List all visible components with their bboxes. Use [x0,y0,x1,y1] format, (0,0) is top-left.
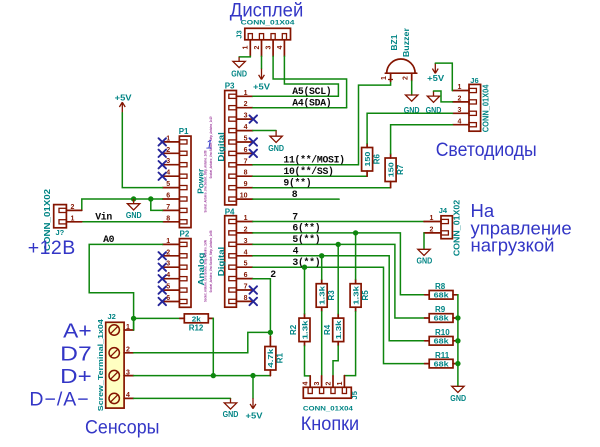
wire D+ J2 pin3 row [134,375,271,377]
J6 reference [470,76,478,85]
label D+ [60,365,91,388]
svg-text:Сенсоры: Сенсоры [85,417,160,439]
power +5V (left, arrow up) [115,92,132,112]
label +12В [28,237,76,259]
wire A0 net P2 pin1 to J2/R12 [89,244,162,330]
svg-text:A+: A+ [63,320,91,343]
svg-text:2: 2 [126,347,130,354]
J2 pin stubs [124,330,134,398]
ground GND (R8-R11 rail) [450,386,466,403]
no-connect P1 pin1 [159,138,167,145]
svg-text:68k: 68k [434,291,450,300]
P1 pin numbers 1-8 [166,135,170,222]
svg-text:Socket_Arduino_Uno:Socket_Stri: Socket_Arduino_Uno:Socket_Strip_Arduino_… [203,240,207,302]
P1 name Power [195,168,205,194]
label Кнопки [301,413,360,435]
svg-text:+12В: +12В [28,237,76,259]
connector P4 CONN_01X08 (Digital) [225,216,237,308]
connector P2 CONN_01X06 (Analog) [179,239,191,308]
wire J3 pin4 to A5(SCL) [284,56,338,96]
wire 10(**/SS) net to R6 [253,175,367,177]
wire 9(**) net to R7 [253,187,391,189]
svg-text:D+: D+ [60,365,91,388]
label A+ [63,320,91,343]
net label A4(SDA) [292,98,331,109]
J2 reference [108,312,116,321]
resistor R3 1.3k [316,279,336,311]
J6 pin stubs [453,91,470,125]
J4 reference [439,206,448,215]
ground GND (P1) [126,199,142,220]
svg-text:R6: R6 [372,154,381,165]
connector J5 CONN_01X04 (buttons) [303,387,351,398]
wire R7 top to J6 pin4 [391,125,453,154]
connector J2 Screw_Terminal_1x04 (sensors) [106,322,124,408]
P2 footprint field [203,240,207,302]
J4 value CONN_01X02 [453,199,462,256]
svg-text:R3: R3 [327,290,336,301]
P3 pin stubs [236,96,252,199]
junction rail at R11 [455,361,460,366]
svg-text:150: 150 [386,162,395,177]
resistor R5 1.3k [350,279,370,311]
wire GND rail to P1 pin7 [151,199,163,210]
label На управление нагрузкой [471,200,572,256]
junction D+ at R12 branch [211,373,216,378]
wire D7 J2 pin2 to R1 top [134,332,271,352]
connector J4 CONN_01X02 (load) [441,216,452,239]
ground GND (J4) [417,249,433,265]
BZ1 value Buzzer [402,28,411,57]
connector J3 CONN_01X04 (display) [245,28,291,40]
J? pin stubs [66,210,81,221]
svg-text:1: 1 [337,381,344,385]
P1 reference [179,127,189,136]
wire net 5(**) to R9 [253,244,425,318]
P4 footprint field [209,231,213,293]
buzzer BZ1 [385,59,417,82]
power +5V (J3 pin2, arrow down) [253,69,270,92]
svg-text:68k: 68k [434,359,450,368]
J5 pin stubs [310,376,344,388]
P1 footprint field [203,151,207,213]
svg-text:R12: R12 [189,324,204,333]
net label 11(**/MOSI) [283,155,344,166]
svg-text:Светодиоды: Светодиоды [436,139,537,161]
svg-text:J4: J4 [439,206,448,215]
J? pin numbers [71,204,75,222]
wire net 4 to R10 [253,256,425,341]
no-connect P1 pin3 [159,161,167,168]
connector J? CONN_01X02 (+12V input) [54,205,67,228]
svg-text:2: 2 [71,204,75,211]
svg-text:8: 8 [244,170,248,177]
svg-text:A0: A0 [103,234,115,245]
svg-text:1: 1 [430,215,434,222]
wire D-/A- J2 pin4 to GND [134,397,231,399]
wire +5V to J6 pin1 [435,63,452,90]
J6 value CONN_01X04 [481,84,490,132]
no-connect P3 pin3 [250,115,258,122]
J3 pin stubs [250,40,284,57]
svg-text:4: 4 [303,381,310,385]
svg-text:Digital: Digital [216,132,226,162]
no-connect P4 pin8 [250,298,258,306]
svg-text:1.3k: 1.3k [318,285,327,305]
svg-text:R11: R11 [435,351,450,360]
P4 pin numbers 1-8 [244,215,248,302]
no-connect P4 pin7 [250,286,258,294]
svg-text:4: 4 [244,249,248,256]
svg-text:Socket_Arduino_Uno:Socket_Stri: Socket_Arduino_Uno:Socket_Strip_Arduino_… [203,151,207,213]
net label 9(**) [283,178,311,189]
svg-text:Дисплей: Дисплей [230,0,303,21]
svg-text:5: 5 [244,136,248,143]
svg-text:R4: R4 [323,324,332,335]
svg-text:4: 4 [293,246,299,257]
no-connect P2 pin5 [159,286,167,293]
junction 6(**) at R5 [353,230,358,235]
BZ1 reference [390,34,399,51]
J2 pin numbers 1-4 [126,324,130,399]
svg-text:Socket_Arduino_Uno:Socket_Stri: Socket_Arduino_Uno:Socket_Strip_Arduino_… [209,231,213,293]
junction 4 at R3 [319,253,324,258]
svg-text:5: 5 [244,261,248,268]
junction GND rail at x=150.8 [148,196,153,201]
svg-text:3: 3 [266,45,273,49]
svg-text:2k: 2k [192,314,202,323]
wire net 2 to R1 [253,279,271,337]
svg-text:Screw_Terminal_1x04: Screw_Terminal_1x04 [96,319,105,411]
junction rail at R10 [455,338,460,343]
P2 pin numbers 1-6 [166,238,170,302]
svg-text:3: 3 [166,261,170,268]
svg-text:6: 6 [166,193,170,200]
svg-text:P4: P4 [225,208,235,217]
junction 3(**) at R2 [302,265,307,270]
svg-text:R7: R7 [396,164,405,175]
wire R3 bottom to J5 pin3 [321,312,323,376]
svg-text:8: 8 [166,215,170,222]
svg-text:2: 2 [244,101,248,108]
connector P1 CONN_01X08 (Power) [179,136,191,228]
svg-text:2: 2 [254,45,261,49]
J4 pin numbers [430,215,434,233]
svg-text:J6: J6 [470,76,478,85]
wire net 7 to J4 pin1 [253,221,424,223]
svg-text:10(**/SS): 10(**/SS) [283,166,333,177]
svg-text:2: 2 [166,249,170,256]
junction 5(**) at R4 [336,242,341,247]
blue unit mark 1 [206,140,212,152]
wire junction to R12 [134,317,180,319]
svg-text:A4(SDA): A4(SDA) [292,98,331,109]
wire A4(SDA) net [253,107,347,109]
svg-text:R1: R1 [276,353,285,364]
svg-text:2: 2 [402,76,409,80]
net label A0 [103,234,115,245]
wire BZ1 pin2 to GND [411,81,413,95]
svg-text:+5V: +5V [427,73,444,83]
J6 pin numbers 1-4 [458,84,462,125]
wire J4 pin2 to GND [423,233,425,249]
wire GND rail to P1 pin6 [82,199,163,210]
wire J3 pin2 to +5V [261,56,263,69]
net label 8 [292,189,298,200]
svg-text:D−/A−: D−/A− [29,389,89,411]
svg-text:Кнопки: Кнопки [301,413,360,435]
svg-text:P3: P3 [225,82,235,91]
svg-text:1: 1 [244,90,248,97]
ground GND (P3 pin4) [268,131,284,154]
J3 reference J3 [235,30,244,38]
svg-text:D7: D7 [60,342,92,365]
J3 pin numbers 1-4 [243,45,284,49]
wire 11(**/MOSI) net to buzzer [253,81,391,165]
svg-text:5: 5 [166,284,170,291]
net label 5(**) [292,234,320,245]
svg-text:3: 3 [244,113,248,120]
wire R3 top feed [321,256,323,279]
no-connect P2 pin2 [159,252,167,259]
svg-text:GND: GND [223,410,239,419]
svg-text:68k: 68k [434,337,450,346]
svg-text:6: 6 [244,147,248,154]
resistor R11 68k [425,351,458,369]
label Дисплей [230,0,303,21]
connector J6 CONN_01X04 (LEDs) [469,84,481,131]
svg-text:J5: J5 [350,391,359,399]
ground GND (J3 pin1) [231,57,247,79]
wire R5 top feed [355,233,357,279]
svg-text:68k: 68k [434,314,450,323]
label D7 [60,342,92,365]
no-connect P3 pin6 [250,150,258,158]
svg-text:R2: R2 [289,324,298,335]
P1 pin stubs [163,142,180,222]
wire R2 top feed [304,267,306,314]
svg-text:3: 3 [166,158,170,165]
svg-text:GND: GND [231,70,247,79]
wire J3 pin3 to A4(SDA) [273,56,347,107]
svg-text:R8: R8 [435,282,446,291]
wire R12 to D+ row [212,318,214,375]
svg-text:1: 1 [126,324,130,331]
svg-text:2: 2 [325,381,332,385]
resistor R4 1.3k [323,314,344,346]
junction D+ at +5V branch [250,373,255,378]
svg-text:4: 4 [126,392,130,399]
J2 value Screw_Terminal_1x04 [96,319,105,411]
BZ1 pin numbers [381,76,409,80]
net label Vin [95,212,112,223]
svg-text:3: 3 [314,381,321,385]
no-connect P3 pin5 [250,138,258,146]
J5 reference [350,391,359,399]
svg-text:5(**): 5(**) [292,234,320,245]
svg-text:4: 4 [166,170,170,177]
wire net 3(**) to R11 [253,267,425,363]
junction A0/R12/J2 pin1 [131,316,136,321]
wire GND to J6 pin2 [434,91,453,102]
net label 3(**) [292,257,320,268]
junction GND rail at x=133.6 [131,196,136,201]
resistor R9 68k [425,305,458,323]
svg-text:6: 6 [166,295,170,302]
connector P3 CONN_01X10 (Digital) [225,91,237,205]
J3 value CONN_01X04 [241,20,295,27]
svg-text:1: 1 [166,135,170,142]
svg-text:1.3k: 1.3k [334,319,343,339]
P4 name Digital [216,247,226,277]
svg-text:10: 10 [240,193,248,200]
ground GND (BZ1) [404,95,420,115]
svg-text:7: 7 [166,204,170,211]
P3 name Digital [216,132,226,162]
svg-text:7: 7 [292,211,298,222]
svg-text:2: 2 [166,147,170,154]
resistor R12 2k [180,314,213,333]
svg-text:+5V: +5V [246,411,263,421]
wire R5 bottom to J5 pin1 [344,312,355,376]
svg-text:4: 4 [458,118,462,125]
net label 2 [270,269,276,280]
svg-text:R9: R9 [435,305,446,314]
svg-text:GND: GND [268,144,284,153]
resistor R1 4.7k [265,337,285,376]
net label 6(**) [292,223,320,234]
wire J3 pin1 to GND [239,55,250,58]
svg-text:P1: P1 [179,127,189,136]
svg-text:1: 1 [244,215,248,222]
J? value CONN_01X02 [43,188,52,251]
svg-text:3: 3 [458,107,462,114]
net label 7 [292,211,298,222]
junction D7/R1 feed [268,330,273,335]
resistor R6 150 [362,144,382,177]
svg-text:P2: P2 [180,230,190,239]
svg-text:+5V: +5V [253,81,270,91]
svg-text:J?: J? [56,228,65,237]
svg-text:1.3k: 1.3k [351,285,360,305]
svg-text:GND: GND [450,394,466,403]
net label 4 [293,246,299,257]
no-connect P2 pin4 [159,275,167,282]
svg-text:A5(SCL): A5(SCL) [292,86,331,97]
svg-text:2: 2 [430,226,434,233]
svg-text:Vin: Vin [95,212,112,223]
svg-text:6: 6 [244,272,248,279]
svg-text:BZ1: BZ1 [390,34,399,51]
wire A5(SCL) net [253,95,339,97]
svg-text:4: 4 [166,272,170,279]
svg-text:9: 9 [244,181,248,188]
svg-text:6(**): 6(**) [292,223,320,234]
svg-text:9(**): 9(**) [283,178,311,189]
svg-text:1: 1 [166,238,170,245]
no-connect P2 pin3 [159,264,167,271]
label Светодиоды [436,139,537,161]
wire R2 bottom to J5 pin4 [305,346,311,376]
P2 pin stubs [163,244,180,301]
svg-text:1: 1 [381,76,388,80]
svg-text:CONN_01X02: CONN_01X02 [453,199,462,256]
wire net 8 [253,198,339,200]
wire GND rail right [457,295,459,387]
net label 10(**/SS) [283,166,333,177]
no-connect P1 pin2 [159,150,167,157]
svg-text:1: 1 [71,215,75,222]
label Сенсоры [85,417,160,439]
power +5V (bottom, arrow down) [246,376,263,421]
wire R6 top to J6 pin3 [367,113,452,143]
svg-text:4: 4 [244,124,248,131]
J5 pin numbers 4-1 [303,381,344,385]
svg-text:7: 7 [244,284,248,291]
ground GND (J2 pin4) [223,398,239,418]
svg-text:нагрузкой: нагрузкой [471,234,555,255]
resistor R7 150 [385,154,405,188]
P2 name Analog [196,253,206,286]
svg-text:150: 150 [363,152,372,167]
svg-text:4: 4 [277,45,284,49]
svg-text:GND: GND [126,211,142,220]
wire J2 pin1 up to junction [133,318,135,330]
wire R4 bottom to J5 pin2 [333,346,338,376]
P4 reference [225,208,235,217]
P3 reference [225,82,235,91]
J? reference [56,228,65,237]
svg-text:1.3k: 1.3k [300,319,309,339]
ground GND (J6 pin2) [426,91,442,115]
svg-text:8: 8 [244,295,248,302]
svg-text:2: 2 [244,226,248,233]
power +5V (right, arrow down) [427,63,444,83]
svg-text:7: 7 [244,158,248,165]
svg-text:GND: GND [417,257,433,266]
J4 pin stubs [424,222,441,233]
P3 pin numbers 1-10 [240,90,248,200]
no-connect P1 pin4 [159,173,167,180]
resistor R8 68k [425,282,458,300]
svg-text:CONN_01X04: CONN_01X04 [303,405,354,412]
resistor R2 1.3k [289,314,310,346]
wire +5V to P1 pin5 [122,113,162,188]
svg-text:2: 2 [458,96,462,103]
junction rail at R9 [455,315,460,320]
J5 value CONN_01X04 [303,405,354,412]
svg-text:8: 8 [292,189,298,200]
wire net 6(**) to R8 [253,233,425,295]
label D-/A- [29,389,89,411]
P3 footprint field [209,117,213,179]
svg-text:R10: R10 [435,328,450,337]
wire P3 pin4 to GND [253,130,276,132]
svg-text:3: 3 [244,238,248,245]
svg-text:4.7k: 4.7k [266,348,275,368]
svg-text:J2: J2 [108,312,116,321]
svg-text:Buzzer: Buzzer [402,28,411,57]
resistor R10 68k [425,328,458,346]
svg-text:11(**/MOSI): 11(**/MOSI) [283,155,344,166]
svg-text:Digital: Digital [216,247,226,277]
net label A5(SCL) [292,86,331,97]
svg-text:2: 2 [270,269,276,280]
wire Vin J7 pin1 to P1 pin8 [82,221,163,223]
P4 pin stubs [236,222,252,302]
wire R4 top feed [337,244,339,313]
svg-text:3: 3 [126,369,130,376]
